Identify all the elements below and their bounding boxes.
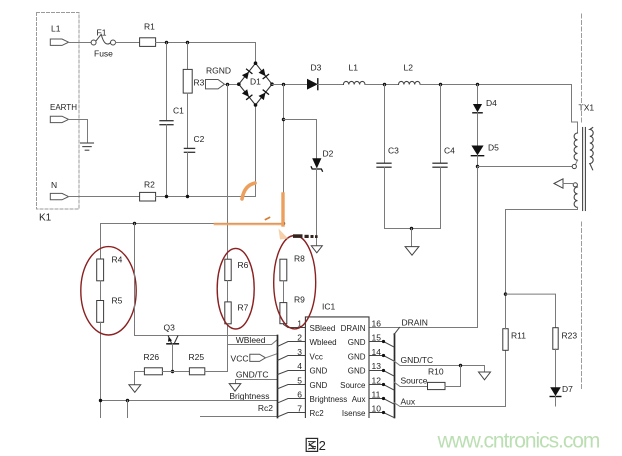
node R8-top (282, 222, 285, 225)
svg-text:C4: C4 (444, 146, 455, 156)
svg-text:DRAIN: DRAIN (341, 324, 366, 333)
pin 4 stub (278, 371, 306, 375)
wire N to R2 (69, 196, 140, 198)
svg-text:D7: D7 (562, 384, 573, 394)
resistor R2 (140, 180, 156, 202)
svg-text:VCC: VCC (231, 354, 249, 364)
pin 1 stub (288, 327, 305, 329)
pin 12 stub (369, 385, 394, 391)
red ellipse around R4 R5 (81, 247, 136, 335)
svg-text:6: 6 (297, 390, 302, 400)
fuse F1 (91, 28, 115, 59)
wire D3 to L1 (318, 84, 344, 86)
ground flag R26 (129, 372, 141, 393)
wire R6-R7 (227, 281, 229, 302)
svg-text:4: 4 (297, 361, 302, 371)
diode D7 (550, 384, 573, 406)
dark dashes mark (293, 234, 318, 238)
resistor R6 (225, 259, 249, 280)
resistor R23 (553, 328, 578, 388)
svg-text:R1: R1 (144, 22, 155, 32)
Aux net (394, 350, 506, 406)
node RGND (226, 83, 229, 86)
resistor R8 (280, 254, 305, 281)
connector EARTH (50, 103, 77, 123)
svg-text:R3: R3 (194, 78, 205, 88)
VCC net (231, 354, 278, 364)
svg-text:Fuse: Fuse (94, 49, 113, 59)
node D4-top (476, 83, 479, 86)
capacitor C3 (377, 85, 399, 229)
IC1 left bus (277, 336, 279, 418)
pin 11 stub (369, 399, 394, 405)
transistor Q3 (164, 323, 179, 372)
D1 diode top-left (242, 69, 252, 79)
TX1 primary feed wire (572, 85, 578, 134)
inductor L2 (399, 63, 421, 85)
node C4-top (439, 83, 442, 86)
diode D3 (307, 63, 322, 90)
wire fuse to R1 (116, 42, 140, 44)
node C1-bottom (165, 195, 168, 198)
TX1 aux arrow connector (554, 179, 563, 188)
svg-text:16: 16 (372, 319, 382, 329)
zener diode D2 (311, 120, 333, 246)
svg-text:D3: D3 (311, 63, 322, 73)
svg-text:DRAIN: DRAIN (402, 318, 428, 328)
node C1-top (165, 41, 168, 44)
isolation dashed line top (581, 14, 583, 122)
node D5-TX1 (476, 165, 479, 168)
svg-text:7: 7 (297, 404, 302, 414)
resistor R11 (503, 294, 526, 350)
pin 14 stub (369, 356, 394, 362)
GND/TC right net (394, 355, 491, 380)
svg-text:WBleed: WBleed (236, 335, 266, 345)
D1 diode bottom-right (259, 90, 269, 100)
wire EARTH to ground (69, 120, 88, 143)
svg-text:C2: C2 (194, 134, 205, 144)
svg-text:Q3: Q3 (164, 323, 176, 333)
svg-text:R11: R11 (511, 331, 526, 341)
wire node to R23 (506, 294, 556, 328)
connector block K1 dashed box (37, 13, 80, 210)
orange watermark arc (242, 183, 255, 199)
svg-text:R5: R5 (112, 296, 123, 306)
resistor R9 (280, 295, 305, 324)
IC1 pin labels right (340, 324, 366, 418)
node C2-bottom (186, 195, 189, 198)
node R11-R23 (504, 292, 507, 295)
capacitor C2 (184, 134, 204, 197)
TX1 primary winding (574, 133, 577, 160)
resistor R5 (97, 296, 123, 323)
Brightness net (99, 391, 278, 418)
IC1 pin numbers right (372, 319, 382, 414)
pin 2 stub (278, 342, 306, 347)
orange watermark wedge (279, 229, 289, 240)
wire bridge right to D3 (272, 84, 307, 86)
svg-text:Source: Source (340, 381, 366, 390)
svg-text:R25: R25 (189, 352, 205, 362)
pin 6 stub (278, 399, 306, 403)
pin 3 stub (278, 356, 306, 361)
svg-text:C3: C3 (388, 146, 399, 156)
svg-text:D1: D1 (250, 77, 261, 87)
wire C3-C4 bottom (385, 228, 441, 230)
Source net (394, 376, 428, 387)
D1 diode bottom-left (242, 89, 252, 99)
svg-text:5: 5 (297, 375, 302, 385)
wire L2 to TX1 corner (420, 84, 572, 86)
pin 7 stub (278, 413, 306, 417)
TX1 aux bottom wire (506, 207, 578, 294)
svg-text:Rc2: Rc2 (310, 409, 325, 418)
svg-text:RGND: RGND (206, 66, 231, 76)
wire R1 to bridge top (156, 42, 256, 44)
connector N (50, 180, 68, 200)
earth ground symbol (81, 143, 94, 150)
svg-text:3: 3 (297, 347, 302, 357)
resistor R7 (225, 302, 249, 324)
IC1 pin labels left (310, 324, 348, 418)
node DC+ (282, 83, 285, 86)
capacitor C1 (160, 43, 184, 197)
svg-text:Aux: Aux (401, 397, 416, 407)
R4R5 column wire (100, 224, 102, 260)
svg-text:L1: L1 (349, 63, 359, 73)
svg-text:GND: GND (348, 338, 366, 347)
svg-text:R9: R9 (294, 295, 305, 305)
diode D4 (473, 85, 497, 146)
pin 10 stub (369, 413, 394, 418)
wire R9 to pin1 (284, 324, 289, 328)
svg-text:GND: GND (348, 367, 366, 376)
pin 13 stub (369, 371, 394, 377)
svg-text:Brightness: Brightness (229, 391, 269, 401)
svg-text:R10: R10 (428, 367, 444, 377)
svg-text:R2: R2 (144, 180, 155, 190)
wire L1 to L2 (365, 84, 399, 86)
svg-text:Brightness: Brightness (310, 395, 348, 404)
svg-text:L1: L1 (51, 24, 61, 34)
svg-text:13: 13 (372, 361, 382, 371)
svg-text:IC1: IC1 (322, 302, 336, 312)
svg-text:R23: R23 (562, 331, 578, 341)
svg-text:K1: K1 (39, 213, 52, 224)
inductor L1 (343, 63, 365, 85)
svg-text:D4: D4 (486, 98, 497, 108)
wire R5 down to Brightness (100, 322, 102, 417)
svg-text:TX1: TX1 (579, 103, 595, 113)
caption figure 2 glyph (306, 438, 317, 451)
svg-text:SBleed: SBleed (310, 324, 336, 333)
orange watermark tick (266, 218, 270, 220)
wire RGND to bridge left (225, 84, 239, 86)
D1 vertex nodes (254, 61, 258, 65)
wire R4-R5 (100, 281, 102, 301)
TX1 aux pin circle (573, 183, 577, 187)
resistor R25 (189, 352, 228, 375)
wire DRAIN drop (369, 167, 478, 328)
wire D5 node to TX1 primary (478, 166, 573, 168)
mid horizontal rail y224 (101, 223, 284, 225)
Q3 branch wire (135, 224, 278, 336)
svg-text:GND/TC: GND/TC (236, 370, 269, 380)
svg-text:www.cntronics.com: www.cntronics.com (437, 429, 600, 452)
TX1 secondary winding (590, 128, 593, 170)
node ground-C3C4 (410, 227, 413, 230)
svg-text:Rc2: Rc2 (258, 403, 273, 413)
resistor R26 (135, 352, 190, 375)
resistor R4 (97, 255, 123, 281)
svg-text:Wbleed: Wbleed (310, 338, 337, 347)
wire L1 to fuse (69, 42, 91, 44)
svg-text:R6: R6 (238, 260, 249, 270)
TX1 core (582, 128, 584, 211)
GND/TC left net (229, 370, 277, 392)
transformer TX1 (506, 85, 595, 295)
svg-text:GND: GND (310, 381, 328, 390)
TX1 aux winding (574, 187, 577, 207)
svg-text:2: 2 (319, 438, 326, 453)
IC1 pin numbers left (297, 319, 302, 414)
svg-text:D2: D2 (323, 149, 334, 159)
connector L1 (50, 24, 68, 46)
resistor R10 (428, 366, 461, 390)
wire R2 to bridge bottom (156, 196, 256, 198)
pin 5 stub (278, 385, 306, 389)
Rc2 net (201, 403, 278, 417)
svg-text:GND: GND (310, 367, 328, 376)
bridge rectifier D1 (237, 61, 274, 106)
svg-text:GND: GND (348, 352, 366, 361)
wire R7 down to R25 node (227, 324, 229, 372)
ground flag C3C4 (405, 229, 419, 256)
IC1 right bus (394, 334, 396, 418)
svg-text:Vcc: Vcc (310, 352, 323, 361)
svg-text:12: 12 (372, 375, 382, 385)
capacitor C4 (433, 85, 455, 229)
svg-text:D5: D5 (488, 143, 499, 153)
orange watermark vertical stroke (281, 194, 284, 225)
svg-text:R4: R4 (112, 255, 123, 265)
svg-text:EARTH: EARTH (50, 103, 77, 112)
svg-text:Aux: Aux (352, 395, 366, 404)
red ellipse around R6 R7 (217, 248, 254, 329)
power flag below D2 (311, 246, 322, 253)
IC1 box (305, 302, 369, 418)
wire R8-R9 (283, 281, 285, 303)
zener D2 branch (282, 85, 317, 224)
svg-text:R26: R26 (144, 352, 160, 362)
svg-text:Isense: Isense (342, 409, 366, 418)
svg-text:GND/TC: GND/TC (401, 355, 434, 365)
wire RGND rail down to R6 (227, 85, 229, 260)
svg-text:Source: Source (401, 376, 428, 386)
node Q3-R25R26 (171, 370, 174, 373)
orange watermark horizontal stroke (215, 223, 281, 226)
node C3-top (383, 83, 386, 86)
svg-text:N: N (51, 180, 57, 190)
pin 15 stub (369, 342, 394, 348)
connector RGND (206, 66, 232, 89)
TX1 primary pin circle (572, 164, 576, 168)
node Q3-branch (133, 222, 136, 225)
D1 diode top-right (259, 68, 269, 78)
resistor R3 (183, 43, 204, 149)
node R3-top (186, 41, 189, 44)
svg-text:C1: C1 (173, 106, 184, 116)
svg-text:L2: L2 (404, 63, 414, 73)
resistor R1 (140, 22, 156, 47)
svg-text:R7: R7 (238, 303, 249, 313)
svg-text:R8: R8 (294, 254, 305, 264)
diode D5 (471, 143, 499, 167)
red ellipse around R8 R9 (274, 236, 316, 329)
svg-text:2: 2 (297, 333, 302, 343)
WBleed net (228, 335, 278, 345)
isolation dashed line bottom (581, 222, 583, 390)
